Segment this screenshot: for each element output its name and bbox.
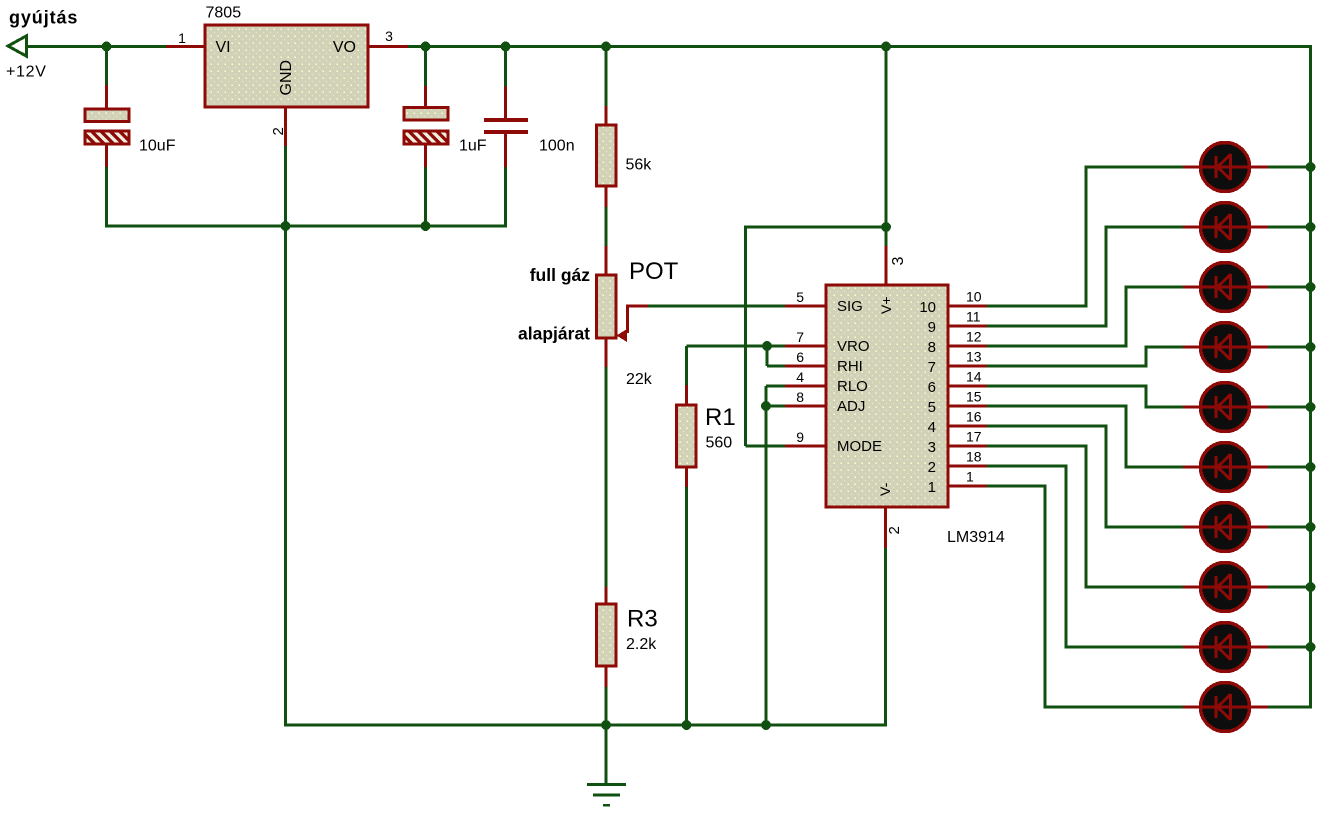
regulator U 7805 body — [205, 25, 368, 107]
node junction top rail at R2 chain — [601, 42, 611, 52]
wire feed column D1 — [1085, 166, 1088, 308]
pin number 11 label — [966, 309, 981, 325]
internal pin number 5 — [928, 399, 936, 416]
wire 7805 GND down to bottom rail — [284, 146, 287, 727]
pin stub output 16 right — [948, 425, 987, 428]
svg-text:5: 5 — [796, 289, 804, 305]
pin stub 7805 pin1 (VI) — [166, 45, 205, 48]
svg-text:56k: 56k — [626, 157, 653, 174]
pin number 8 label — [796, 389, 804, 405]
label alapjarat — [518, 324, 590, 344]
svg-text:2: 2 — [886, 526, 903, 534]
pin number 14 label — [966, 369, 982, 385]
wire feed column D2 — [1105, 226, 1108, 328]
pin number 7 label — [796, 329, 804, 345]
wire feed to LED D6 — [1126, 466, 1183, 469]
LED D1 anode pin — [1183, 166, 1201, 169]
pin name VRO — [837, 338, 870, 355]
LED D7 anode pin — [1183, 526, 1201, 529]
wire LED D8 cathode to right rail — [1268, 586, 1311, 589]
svg-text:6: 6 — [928, 379, 936, 396]
svg-text:6: 6 — [796, 349, 804, 365]
LED D8 cathode pin — [1249, 586, 1268, 589]
svg-text:GND: GND — [278, 60, 295, 96]
wire top rail from terminal to 7805 pin1 — [28, 45, 166, 48]
svg-text:18: 18 — [966, 449, 982, 465]
wire LED D2 cathode to right rail — [1268, 226, 1311, 229]
pin name SIG — [837, 298, 863, 315]
internal pin number 1 — [928, 479, 936, 496]
pin number 16 label — [966, 409, 982, 425]
node junction top rail at C1 — [102, 42, 112, 52]
LED D3 anode pin — [1183, 286, 1201, 289]
LED D5 anode pin — [1183, 406, 1201, 409]
resistor R3 label — [627, 606, 658, 633]
wire feed column D8 — [1085, 445, 1088, 589]
LED D7 cathode pin — [1249, 526, 1268, 529]
wire C3 to ground rail — [504, 167, 507, 228]
LED D5 cathode pin — [1249, 406, 1268, 409]
resistor R2 56k top pin — [605, 106, 608, 125]
node junction right rail at D7 — [1306, 522, 1316, 532]
LED D2 cathode pin — [1249, 226, 1268, 229]
pin stub output 14 right — [948, 385, 987, 388]
svg-text:RHI: RHI — [837, 358, 863, 375]
node junction top rail at V+ drop — [881, 42, 891, 52]
LED D6 cathode pin — [1249, 466, 1268, 469]
svg-text:2: 2 — [928, 459, 936, 476]
wire pin row to feed column D9 — [987, 465, 1066, 468]
pin name ADJ — [837, 398, 865, 415]
LED D8 body — [1201, 563, 1250, 612]
node junction right rail at D5 — [1306, 402, 1316, 412]
pin number 15 label — [966, 389, 982, 405]
resistor R1 value 560 — [706, 435, 733, 452]
wire LED D1 cathode to right rail — [1268, 166, 1311, 169]
op-amp/IC U1 LM3914 body — [826, 285, 948, 507]
pin stub VRO left — [785, 345, 826, 348]
wire pin row to feed column D4 — [987, 365, 1146, 368]
pin name RHI — [837, 358, 863, 375]
LED D5 body — [1201, 383, 1250, 432]
svg-text:7: 7 — [928, 359, 936, 376]
svg-text:gyújtás: gyújtás — [9, 8, 78, 28]
pin number 12 label — [966, 329, 982, 345]
pin number 13 label — [966, 349, 982, 365]
resistor R2 56k body — [597, 125, 617, 186]
capacitor C1 bottom pin — [105, 144, 108, 167]
pin number 10 label — [966, 289, 982, 305]
wire C1 drop from top rail — [105, 46, 108, 85]
wire pin row to feed column D2 — [987, 325, 1106, 328]
wire LED D4 cathode to right rail — [1268, 346, 1311, 349]
svg-text:V+: V+ — [878, 296, 894, 314]
node junction VRO — [762, 341, 772, 351]
svg-text:LM3914: LM3914 — [947, 529, 1005, 546]
pin name GND rotated — [278, 60, 295, 96]
pin name VI — [216, 39, 231, 56]
svg-text:2: 2 — [270, 127, 287, 135]
LED D8 anode pin — [1183, 586, 1201, 589]
node junction right rail at D4 — [1306, 342, 1316, 352]
resistor R1 body — [677, 405, 697, 467]
svg-text:12: 12 — [966, 329, 982, 345]
wire C3 drop from top rail — [504, 46, 507, 87]
svg-text:1uF: 1uF — [459, 138, 487, 155]
wire feed to LED D8 — [1086, 586, 1183, 589]
svg-text:3: 3 — [928, 439, 936, 456]
wire RLO horizontal — [766, 385, 785, 388]
LED D7 body — [1201, 503, 1250, 552]
svg-text:10: 10 — [966, 289, 982, 305]
wire pin row to feed column D5 — [987, 385, 1146, 388]
svg-text:3: 3 — [890, 257, 907, 266]
pin stub output 12 right — [948, 345, 987, 348]
capacitor C1 value 10uF — [139, 138, 176, 155]
LED D2 anode pin — [1183, 226, 1201, 229]
LED D6 anode pin — [1183, 466, 1201, 469]
wire feed to LED D5 — [1146, 406, 1183, 409]
svg-text:5: 5 — [928, 399, 936, 416]
capacitor C2 1uF top pin — [424, 86, 427, 108]
pin number 17 label — [966, 429, 982, 445]
LED D1 cathode pin — [1249, 166, 1268, 169]
LED D10 anode pin — [1183, 706, 1201, 709]
capacitor C2 value 1uF — [459, 138, 487, 155]
pin name MODE — [837, 438, 882, 455]
svg-text:15: 15 — [966, 389, 982, 405]
potentiometer POT body — [597, 275, 617, 338]
wire pin row to feed column D7 — [987, 425, 1106, 428]
wire pin row to feed column D3 — [987, 345, 1126, 348]
svg-text:8: 8 — [796, 389, 804, 405]
wire pin row to feed column D10 — [987, 485, 1045, 488]
svg-text:560: 560 — [706, 435, 733, 452]
svg-text:VO: VO — [333, 39, 356, 56]
resistor R1 label — [705, 404, 736, 431]
svg-text:9: 9 — [796, 429, 804, 445]
node junction right rail at D8 — [1306, 582, 1316, 592]
svg-text:2.2k: 2.2k — [626, 636, 657, 653]
label +12V — [6, 64, 47, 81]
wire VRO horizontal — [687, 345, 786, 348]
pin number 4 label — [796, 369, 804, 385]
pin number 2 rotated — [886, 526, 903, 534]
svg-text:1: 1 — [966, 469, 974, 485]
wire C2 drop from top rail — [424, 46, 427, 86]
svg-text:POT: POT — [629, 258, 679, 285]
resistor R3 bottom pin — [605, 666, 608, 687]
svg-text:10: 10 — [919, 299, 936, 316]
pin number 3 rotated — [890, 257, 907, 266]
svg-text:VRO: VRO — [837, 338, 870, 355]
capacitor C1 10uF negative plate (hatched) — [85, 131, 129, 144]
node junction V+ link — [881, 222, 891, 232]
wire feed to LED D1 — [1086, 166, 1183, 169]
pin stub RHI left — [785, 365, 826, 368]
wire feed column D6 — [1125, 405, 1128, 469]
wire feed to LED D7 — [1106, 526, 1183, 529]
internal pin number 3 — [928, 439, 936, 456]
svg-text:13: 13 — [966, 349, 982, 365]
LED D9 anode pin — [1183, 646, 1201, 649]
resistor R2 56k bottom pin — [605, 186, 608, 207]
capacitor C3 value 100n — [539, 138, 575, 155]
resistor R1 top pin — [685, 385, 688, 405]
wire top rail from pin3 to right rail — [408, 45, 1312, 48]
LED D4 cathode pin — [1249, 346, 1268, 349]
label full gaz — [530, 265, 591, 285]
wire C2 to ground rail — [424, 167, 427, 226]
capacitor C1 10uF top pin — [105, 85, 108, 109]
capacitor C2 1uF positive plate — [404, 108, 448, 121]
wire MODE column vertical — [744, 227, 747, 446]
wire LED D3 cathode to right rail — [1268, 286, 1311, 289]
node junction right rail at D1 — [1306, 162, 1316, 172]
wire pin row to feed column D8 — [987, 445, 1086, 448]
pin stub output 1 right — [948, 485, 987, 488]
label 7805 — [206, 5, 242, 22]
pin stub output 17 right — [948, 445, 987, 448]
LED D9 cathode pin — [1249, 646, 1268, 649]
pin name V+ rotated — [878, 296, 894, 314]
pin number 2 of 7805 rotated — [270, 127, 287, 135]
capacitor C3 100n bottom plate — [484, 130, 528, 134]
power terminal +12V (gyujtas input arrow) — [8, 36, 27, 56]
wire feed column D3 — [1125, 286, 1128, 348]
wire pin row to feed column D1 — [987, 305, 1086, 308]
wire SIG from wiper — [648, 305, 785, 308]
wire R2 drop from top rail — [605, 46, 608, 106]
pin number 6 label — [796, 349, 804, 365]
node junction right rail at D3 — [1306, 282, 1316, 292]
potentiometer POT bottom pin — [605, 338, 608, 367]
pin stub output 15 right — [948, 405, 987, 408]
node junction top rail at C2 — [421, 42, 431, 52]
pin stub SIG left — [785, 305, 826, 308]
svg-text:1: 1 — [928, 479, 936, 496]
capacitor C2 bottom pin — [424, 144, 427, 167]
wire feed column D9 — [1065, 465, 1068, 649]
svg-text:MODE: MODE — [837, 438, 882, 455]
wire MODE horizontal — [746, 445, 786, 448]
wire ADJ horizontal — [766, 405, 785, 408]
pin stub MODE left — [785, 445, 826, 448]
wire feed to LED D2 — [1106, 226, 1183, 229]
wire LED D6 cathode to right rail — [1268, 466, 1311, 469]
wire RHI horizontal — [767, 365, 785, 368]
pin number 3 of 7805 — [385, 28, 393, 44]
wire ADJ column to bottom rail — [765, 406, 768, 725]
pin name VO — [333, 39, 356, 56]
pin stub ADJ left — [785, 405, 826, 408]
svg-text:1: 1 — [178, 30, 186, 46]
wire pin row to feed column D6 — [987, 405, 1126, 408]
svg-text:11: 11 — [966, 309, 981, 325]
wire VRO to RHI vertical — [766, 346, 769, 366]
wire LED D9 cathode to right rail — [1268, 646, 1311, 649]
pin stub RLO left — [785, 385, 826, 388]
internal pin number 10 — [919, 299, 936, 316]
resistor R1 bottom pin — [685, 467, 688, 487]
svg-text:9: 9 — [928, 319, 936, 336]
node junction right rail at D6 — [1306, 462, 1316, 472]
label LM3914 — [947, 529, 1005, 546]
node junction ground rail at 7805 GND — [281, 221, 291, 231]
internal pin number 8 — [928, 339, 936, 356]
svg-text:16: 16 — [966, 409, 982, 425]
svg-text:7805: 7805 — [206, 5, 242, 22]
label POT — [629, 258, 679, 285]
node junction bottom rail at R1 — [682, 720, 692, 730]
svg-text:ADJ: ADJ — [837, 398, 865, 415]
potentiometer wiper arrow — [617, 306, 649, 342]
pin stub output 11 right — [948, 325, 987, 328]
LED D9 body — [1201, 623, 1250, 672]
svg-text:R1: R1 — [705, 404, 736, 431]
svg-text:full gáz: full gáz — [530, 265, 591, 285]
LED D10 body — [1201, 683, 1250, 732]
wire RLO to ADJ vertical — [765, 386, 768, 406]
svg-text:14: 14 — [966, 369, 982, 385]
pin stub V+ (pin3) — [885, 246, 888, 285]
wire feed to LED D3 — [1126, 286, 1183, 289]
wire R3 to bottom rail — [605, 687, 608, 726]
node junction ground rail at C2 — [421, 221, 431, 231]
pin number 18 label — [966, 449, 982, 465]
resistor R3 body — [597, 604, 617, 666]
svg-text:17: 17 — [966, 429, 982, 445]
wire feed to LED D10 — [1045, 706, 1183, 709]
pin name RLO — [837, 378, 868, 395]
potentiometer POT top pin — [605, 246, 608, 275]
LED D4 anode pin — [1183, 346, 1201, 349]
wire bottom rail — [284, 724, 887, 727]
internal pin number 6 — [928, 379, 936, 396]
wire feed to LED D9 — [1066, 646, 1183, 649]
node junction ADJ — [761, 401, 771, 411]
wire R1 top to VRO net — [685, 346, 688, 385]
pin stub 7805 pin3 (VO) — [368, 45, 408, 48]
wire V+ green above stub — [885, 227, 888, 246]
wire feed column D7 — [1105, 425, 1108, 529]
svg-text:VI: VI — [216, 39, 231, 56]
svg-text:V-: V- — [877, 482, 893, 496]
wire R2 to POT — [605, 207, 608, 246]
resistor R3 top pin — [605, 587, 608, 604]
svg-text:8: 8 — [928, 339, 936, 356]
LED D1 body — [1201, 143, 1250, 192]
capacitor C3 100n top plate — [484, 118, 528, 122]
internal pin number 9 — [928, 319, 936, 336]
pin stub output 10 right — [948, 305, 987, 308]
capacitor C1 10uF positive plate — [85, 109, 129, 122]
svg-text:22k: 22k — [626, 371, 653, 388]
LED D6 body — [1201, 443, 1250, 492]
svg-text:4: 4 — [928, 419, 936, 436]
svg-text:7: 7 — [796, 329, 804, 345]
LED D3 cathode pin — [1249, 286, 1268, 289]
pin stub V- (pin2) — [884, 507, 887, 548]
svg-text:4: 4 — [796, 369, 804, 385]
wire R1 to bottom rail — [685, 487, 688, 725]
wire LED D5 cathode to right rail — [1268, 406, 1311, 409]
pin stub output 13 right — [948, 365, 987, 368]
node junction right rail at D2 — [1306, 222, 1316, 232]
wire LED D10 cathode to right rail — [1268, 706, 1311, 709]
svg-text:3: 3 — [385, 28, 393, 44]
internal pin number 4 — [928, 419, 936, 436]
potentiometer value 22k — [626, 371, 653, 388]
wire ground rail under caps — [105, 225, 506, 228]
pin number 9 label — [796, 429, 804, 445]
resistor R3 value 2.2k — [626, 636, 657, 653]
internal pin number 2 — [928, 459, 936, 476]
wire feed to LED D4 — [1146, 346, 1183, 349]
internal pin number 7 — [928, 359, 936, 376]
LED D4 body — [1201, 323, 1250, 372]
wire feed column D4 — [1145, 346, 1148, 368]
wire POT to R3 — [605, 367, 608, 587]
svg-text:R3: R3 — [627, 606, 658, 633]
svg-text:alapjárat: alapjárat — [518, 324, 590, 344]
node junction right rail at D9 — [1306, 642, 1316, 652]
wire feed column D5 — [1145, 385, 1148, 409]
wire C1 to ground rail — [105, 167, 108, 228]
pin stub 7805 pin2 (GND) — [284, 107, 287, 146]
svg-text:SIG: SIG — [837, 298, 863, 315]
svg-text:10uF: 10uF — [139, 138, 176, 155]
capacitor C2 1uF negative plate (hatched) — [404, 131, 448, 144]
label gyujtas — [9, 8, 78, 28]
wire LED D7 cathode to right rail — [1268, 526, 1311, 529]
wire feed column D10 — [1044, 485, 1047, 709]
wire link from V+ drop to MODE column — [744, 226, 886, 229]
pin name V- rotated — [877, 482, 893, 496]
capacitor C3 100n top pin — [504, 87, 507, 120]
node junction top rail at C3 — [501, 42, 511, 52]
svg-text:RLO: RLO — [837, 378, 868, 395]
capacitor C3 bottom pin — [504, 134, 507, 167]
node junction bottom rail at ADJ column — [761, 720, 771, 730]
svg-text:100n: 100n — [539, 138, 575, 155]
wire V- below stub — [884, 548, 887, 727]
resistor R2 value 56k — [626, 157, 653, 174]
LED D3 body — [1201, 263, 1250, 312]
LED D2 body — [1201, 203, 1250, 252]
wire V+ drop from top rail — [885, 46, 888, 227]
node junction bottom rail at ground — [601, 720, 611, 730]
LED D10 cathode pin — [1249, 706, 1268, 709]
wire right vertical rail — [1309, 45, 1312, 709]
pin number 1 of 7805 — [178, 30, 186, 46]
ground symbol — [587, 785, 626, 806]
pin number 5 label — [796, 289, 804, 305]
pin number 1 label — [966, 469, 974, 485]
wire ground stub — [605, 725, 608, 784]
pin stub output 18 right — [948, 465, 987, 468]
svg-text:+12V: +12V — [6, 64, 47, 81]
